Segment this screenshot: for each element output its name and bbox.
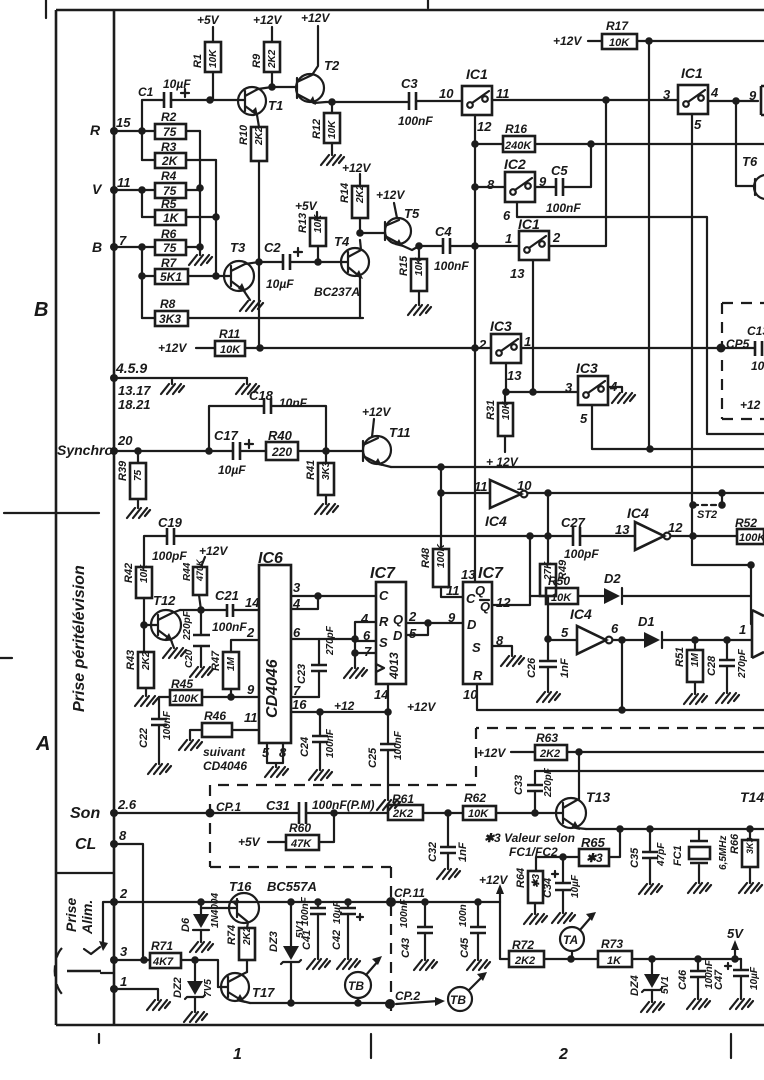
svg-text:13: 13 <box>461 567 476 582</box>
analog switch IC3 b <box>578 376 608 405</box>
resistor R45 100K <box>170 690 202 705</box>
left margin dash <box>0 657 12 659</box>
resonator FC1 6,5MHz <box>698 829 700 883</box>
svg-text:100pF: 100pF <box>564 547 599 561</box>
svg-text:2.6: 2.6 <box>117 797 137 812</box>
wire IC4a output line <box>528 492 764 494</box>
zener DZ2 7V5 <box>194 960 196 1012</box>
svg-text:T4: T4 <box>334 234 350 249</box>
svg-text:2K2: 2K2 <box>514 955 535 967</box>
svg-text:V: V <box>92 181 103 197</box>
svg-text:220pF: 220pF <box>182 610 193 641</box>
capacitor C2 10uF <box>255 258 263 266</box>
svg-text:C34: C34 <box>542 878 554 898</box>
svg-text:2K2: 2K2 <box>141 651 152 671</box>
svg-text:10K: 10K <box>327 120 338 139</box>
svg-text:C26: C26 <box>526 657 538 678</box>
svg-text:R43: R43 <box>125 650 137 670</box>
capacitor C13 <box>755 341 762 356</box>
resistor R43 2K2 <box>138 652 154 688</box>
svg-text:C4: C4 <box>435 224 452 239</box>
svg-text:2K2: 2K2 <box>254 126 265 146</box>
pin 20 Synchro <box>110 447 118 455</box>
svg-text:11: 11 <box>474 479 488 494</box>
capacitor C42 10uF <box>348 902 363 959</box>
svg-text:240K: 240K <box>504 140 532 152</box>
resistor R7 5K1 <box>142 275 224 277</box>
svg-text:100nF: 100nF <box>546 201 581 215</box>
svg-text:100n: 100n <box>458 904 469 927</box>
svg-text:T13: T13 <box>586 789 610 805</box>
svg-text:R72: R72 <box>512 938 534 952</box>
svg-text:10K: 10K <box>220 344 241 356</box>
svg-text:1K: 1K <box>163 211 180 225</box>
svg-text:S: S <box>379 635 388 650</box>
IC IC6 CD4046 <box>259 565 291 743</box>
resistor R64 *3 <box>528 871 543 903</box>
transistor T3 <box>224 261 254 291</box>
svg-text:9: 9 <box>448 610 456 625</box>
svg-text:C28: C28 <box>706 655 718 676</box>
capacitor C3 100nF <box>409 92 416 110</box>
node column R3/R5/R7 <box>215 160 217 276</box>
svg-text:75: 75 <box>163 184 177 198</box>
svg-text:+12V: +12V <box>199 544 228 558</box>
svg-text:Q: Q <box>480 599 490 614</box>
svg-text:3: 3 <box>293 580 301 595</box>
wire IC3b pin4 to ground <box>608 387 622 392</box>
svg-text:Q: Q <box>393 612 403 627</box>
inverter IC4 b <box>635 522 664 550</box>
svg-text:20: 20 <box>117 433 133 448</box>
svg-text:2: 2 <box>408 609 417 624</box>
svg-text:13: 13 <box>507 368 522 383</box>
svg-text:10K: 10K <box>414 257 425 276</box>
analog switch IC1 c <box>519 231 549 260</box>
svg-text:3K3: 3K3 <box>745 837 755 854</box>
svg-text:R60: R60 <box>289 821 311 835</box>
svg-text:DZ4: DZ4 <box>629 975 641 996</box>
svg-text:R52: R52 <box>735 516 757 530</box>
resistor R3 2K <box>142 159 216 161</box>
svg-text:10K: 10K <box>551 592 572 604</box>
svg-text:IC7: IC7 <box>478 565 504 582</box>
capacitor C5 100nF <box>535 144 591 187</box>
dashed boundary TV side <box>210 728 764 1018</box>
capacitor C26 1nF <box>547 639 549 692</box>
svg-text:7V5: 7V5 <box>203 979 214 997</box>
svg-text:C41: C41 <box>301 930 313 950</box>
svg-text:2: 2 <box>552 230 561 245</box>
svg-text:1: 1 <box>739 622 746 637</box>
svg-text:C23: C23 <box>296 664 308 684</box>
transistor T13 <box>556 798 586 828</box>
svg-text:6: 6 <box>503 208 511 223</box>
svg-text:2: 2 <box>558 1046 568 1063</box>
svg-text:R6: R6 <box>161 227 177 241</box>
resistor R50 10K <box>530 595 604 597</box>
svg-text:2K2: 2K2 <box>392 808 413 820</box>
resistor R40 220 <box>266 442 298 460</box>
wire IC3a out to CP5 <box>521 347 755 349</box>
resistor R51 1M <box>694 640 696 694</box>
pin CL 8 <box>110 840 118 848</box>
transistor T17 <box>221 973 249 1001</box>
left margin divider <box>4 512 99 514</box>
svg-text:IC2: IC2 <box>504 156 526 172</box>
svg-text:C25: C25 <box>367 747 379 768</box>
svg-text:C2: C2 <box>264 240 281 255</box>
svg-text:R2: R2 <box>161 110 177 124</box>
svg-text:15: 15 <box>116 115 131 130</box>
svg-text:T11: T11 <box>389 425 410 440</box>
svg-text:13: 13 <box>615 522 630 537</box>
capacitor C18 10nF <box>209 406 326 451</box>
resistor R6 75 <box>142 246 200 248</box>
IC7b pin10 net <box>477 684 764 710</box>
wire IC1a out down to IC1c <box>549 100 606 246</box>
wire C2 node down to R11 <box>258 262 260 348</box>
svg-text:+12V: +12V <box>479 873 508 887</box>
svg-text:C43: C43 <box>400 938 412 958</box>
svg-text:C47: C47 <box>713 969 725 990</box>
resistor R47 1M <box>223 652 239 689</box>
svg-text:270pF: 270pF <box>737 648 748 679</box>
svg-text:3: 3 <box>565 380 573 395</box>
svg-text:R7: R7 <box>161 256 178 270</box>
svg-text:CP5: CP5 <box>726 337 750 351</box>
svg-text:1: 1 <box>524 334 531 349</box>
svg-text:11: 11 <box>446 583 460 598</box>
svg-text:10µF: 10µF <box>163 77 191 91</box>
svg-text:R8: R8 <box>160 297 176 311</box>
svg-text:10µF: 10µF <box>218 463 246 477</box>
capacitor C33 220pF <box>535 771 764 813</box>
svg-text:B: B <box>92 239 102 255</box>
svg-text:C46: C46 <box>677 969 689 990</box>
svg-text:+12: +12 <box>740 398 761 412</box>
svg-text:3K3: 3K3 <box>159 312 181 326</box>
svg-text:TB: TB <box>348 979 364 993</box>
top tick <box>427 0 429 8</box>
node CP.11 <box>386 897 396 907</box>
wire IC4c out to IC7b pin10 <box>621 640 623 710</box>
svg-text:T2: T2 <box>324 58 340 73</box>
resistor R4 75 <box>142 189 200 191</box>
svg-text:10µF: 10µF <box>749 966 760 990</box>
analog switch IC1 b <box>678 85 708 114</box>
wire T2 emitter node / output <box>326 101 409 103</box>
resistor R16 240K <box>475 143 764 145</box>
transistor T16 BC557A <box>229 893 259 923</box>
capacitor C43 100nF <box>424 902 426 960</box>
svg-text:R39: R39 <box>117 460 129 481</box>
svg-text:5V: 5V <box>727 926 744 941</box>
analog switch IC3 a <box>491 334 521 363</box>
svg-text:C45: C45 <box>459 937 471 958</box>
svg-text:IC6: IC6 <box>258 550 283 567</box>
svg-text:+12V: +12V <box>553 34 582 48</box>
node CP.2 <box>385 999 395 1009</box>
svg-text:Son: Son <box>70 805 100 822</box>
svg-text:IC1: IC1 <box>466 66 488 82</box>
svg-text:R51: R51 <box>674 647 686 667</box>
svg-text:5: 5 <box>561 625 569 640</box>
svg-text:CD4046: CD4046 <box>264 659 281 718</box>
wire IC2 pin6 net <box>517 202 764 434</box>
svg-text:R42: R42 <box>123 563 135 583</box>
svg-text:11: 11 <box>244 710 258 725</box>
wire +12V node down to R72 <box>500 902 509 959</box>
svg-text:D1: D1 <box>638 614 655 629</box>
svg-text:C27: C27 <box>561 515 586 530</box>
capacitor C31 100nF <box>299 802 306 824</box>
svg-text:100nF: 100nF <box>212 620 247 634</box>
svg-text:T3: T3 <box>230 240 246 255</box>
svg-text:R48: R48 <box>420 547 432 568</box>
svg-text:R17: R17 <box>606 19 629 33</box>
svg-text:C1: C1 <box>138 85 154 99</box>
svg-text:D: D <box>467 617 477 632</box>
wire IC7b pin12 net <box>492 536 530 605</box>
svg-text:R4: R4 <box>161 169 177 183</box>
pin R 15 <box>110 127 118 135</box>
resistor R42 10K <box>136 567 152 598</box>
inverter IC4 c <box>548 639 577 641</box>
svg-text:2K2: 2K2 <box>355 184 366 204</box>
svg-text:B: B <box>34 299 48 321</box>
svg-text:C: C <box>379 588 389 603</box>
svg-text:5: 5 <box>580 411 588 426</box>
wire node 12 vertical <box>474 115 476 582</box>
svg-text:BC557A: BC557A <box>267 879 317 894</box>
resistor R73 1K <box>598 951 632 967</box>
svg-text:18.21: 18.21 <box>118 397 151 412</box>
svg-text:10K: 10K <box>501 401 512 420</box>
svg-text:CP.1: CP.1 <box>216 800 241 814</box>
+12V arrow <box>499 890 501 902</box>
svg-text:R5: R5 <box>161 197 177 211</box>
transistor T1 <box>238 87 266 115</box>
svg-text:IC7: IC7 <box>370 565 396 582</box>
svg-text:T5: T5 <box>404 206 420 221</box>
svg-text:1: 1 <box>120 974 127 989</box>
wire IC3a pin13 <box>506 363 578 392</box>
svg-text:R: R <box>90 122 101 138</box>
svg-text:C20: C20 <box>184 649 195 668</box>
svg-text:+12V: +12V <box>362 405 391 419</box>
bottom tick 1 <box>370 1034 372 1058</box>
node CP.1 <box>206 809 215 818</box>
svg-text:R3: R3 <box>161 140 177 154</box>
svg-text:10K: 10K <box>609 37 630 49</box>
svg-text:10: 10 <box>439 86 454 101</box>
svg-text:C24: C24 <box>299 737 311 757</box>
node column R2/R4/R6 to ground <box>199 131 201 255</box>
svg-text:C33: C33 <box>513 775 525 795</box>
svg-text:R14: R14 <box>339 183 351 203</box>
svg-text:6: 6 <box>611 621 619 636</box>
svg-text:+12V: +12V <box>376 188 405 202</box>
capacitor C22 100nF <box>158 697 160 764</box>
resistor R2 75 <box>142 130 200 132</box>
svg-text:BC237A: BC237A <box>314 285 360 299</box>
svg-text:R9: R9 <box>251 53 263 68</box>
svg-text:R41: R41 <box>305 460 317 480</box>
svg-text:+12: +12 <box>334 699 355 713</box>
svg-text:Synchro: Synchro <box>57 442 113 458</box>
svg-text:5: 5 <box>409 626 417 641</box>
svg-text:2K: 2K <box>161 154 179 168</box>
wire IC3b pin5 <box>592 405 764 449</box>
svg-text:1nF: 1nF <box>457 842 469 862</box>
capacitor C35 47pF <box>649 829 651 884</box>
capacitor C46 100nF <box>697 959 699 999</box>
svg-text:5K1: 5K1 <box>160 270 182 284</box>
capacitor C4 100nF <box>419 245 475 247</box>
zener DZ4 5V1 <box>651 959 653 1002</box>
svg-text:47pF: 47pF <box>656 842 667 867</box>
analog switch IC1 a <box>462 86 492 115</box>
svg-text:C: C <box>466 591 476 606</box>
svg-text:270pF: 270pF <box>325 625 336 656</box>
svg-text:1nF: 1nF <box>559 658 571 678</box>
svg-text:R71: R71 <box>151 939 173 953</box>
svg-text:T16: T16 <box>229 879 252 894</box>
next stage box edge <box>761 86 764 115</box>
svg-text:ST2: ST2 <box>697 509 717 521</box>
svg-text:10µF: 10µF <box>570 874 581 898</box>
svg-text:FC1: FC1 <box>672 845 684 866</box>
svg-text:+12V: +12V <box>301 11 330 25</box>
capacitor C21 100nF <box>227 604 233 617</box>
svg-text:1M: 1M <box>226 656 237 671</box>
IC IC7 a 4013 <box>376 582 406 684</box>
svg-text:C42: C42 <box>331 930 343 950</box>
svg-text:470K: 470K <box>195 558 205 582</box>
svg-text:C3: C3 <box>401 76 418 91</box>
capacitor C24 100nF <box>319 712 321 770</box>
wire T13 emitter line <box>586 828 764 830</box>
IC7a pins R S 7 to ground <box>355 622 376 668</box>
svg-text:7: 7 <box>364 644 372 659</box>
svg-text:R49: R49 <box>557 559 569 580</box>
svg-text:✱3: ✱3 <box>586 851 603 865</box>
resistor R5 1K <box>142 216 216 218</box>
svg-text:2: 2 <box>119 886 128 901</box>
svg-text:2K2: 2K2 <box>242 926 253 946</box>
svg-text:IC3: IC3 <box>576 360 598 376</box>
svg-text:1: 1 <box>233 1046 242 1063</box>
svg-text:T14: T14 <box>740 789 764 805</box>
svg-text:75: 75 <box>163 241 177 255</box>
svg-text:Alim.: Alim. <box>79 900 95 935</box>
node T12 collector <box>180 609 227 611</box>
svg-text:R63: R63 <box>536 731 558 745</box>
svg-text:R11: R11 <box>219 327 240 341</box>
resistor R74 2K2 <box>239 928 255 960</box>
svg-text:13.17: 13.17 <box>118 383 151 398</box>
svg-text:IC4: IC4 <box>627 505 649 521</box>
svg-text:+12V: +12V <box>407 700 436 714</box>
transistor T12 <box>144 624 158 626</box>
svg-text:1K: 1K <box>607 955 622 967</box>
capacitor C34 10uF <box>552 857 563 913</box>
resistor R49 27K <box>547 536 549 639</box>
svg-text:R13: R13 <box>297 213 309 233</box>
svg-text:suivant: suivant <box>203 745 246 759</box>
frame top border <box>56 9 764 12</box>
svg-text:R1: R1 <box>192 54 204 68</box>
test point TB 2 <box>448 987 472 1011</box>
svg-text:A: A <box>35 733 50 755</box>
divider Prise Alim <box>57 872 114 874</box>
strap ST2 <box>721 493 723 505</box>
svg-text:100nF: 100nF <box>398 114 433 128</box>
svg-text:TA: TA <box>563 933 578 947</box>
svg-text:9: 9 <box>749 88 757 103</box>
svg-text:100nF: 100nF <box>393 730 404 760</box>
svg-text:DZ2: DZ2 <box>172 977 184 998</box>
svg-text:Prise: Prise <box>63 898 79 932</box>
svg-text:10nF: 10nF <box>279 396 308 410</box>
svg-text:100K: 100K <box>739 532 764 544</box>
svg-text:CP.2: CP.2 <box>395 989 420 1003</box>
IC IC7 b 4013 <box>463 582 492 684</box>
svg-text:11: 11 <box>496 86 510 101</box>
resistor R72 2K2 <box>509 951 544 967</box>
wire to T6 <box>736 101 755 186</box>
svg-text:C18: C18 <box>249 388 274 403</box>
svg-text:9: 9 <box>247 682 255 697</box>
svg-text:47K: 47K <box>290 838 312 850</box>
svg-text:+12V: +12V <box>158 341 187 355</box>
svg-text:5: 5 <box>694 117 702 132</box>
svg-text:C22: C22 <box>138 728 150 748</box>
resistor R61 2K2 <box>388 805 423 820</box>
svg-text:4.5.9: 4.5.9 <box>115 360 147 376</box>
svg-text:R: R <box>379 614 389 629</box>
svg-text:+12V: +12V <box>253 13 282 27</box>
svg-text:R47: R47 <box>210 650 222 671</box>
svg-text:+5V: +5V <box>238 835 261 849</box>
transistor T4 <box>341 248 369 276</box>
svg-text:R64: R64 <box>515 868 527 888</box>
pin 3 and R71 4K7 <box>110 956 118 964</box>
svg-text:R62: R62 <box>464 791 486 805</box>
wire IC1b out to pin 9 <box>708 100 758 102</box>
svg-text:IC3: IC3 <box>490 318 512 334</box>
svg-text:DZ3: DZ3 <box>268 931 280 952</box>
svg-text:C5: C5 <box>551 163 568 178</box>
svg-text:27K: 27K <box>543 561 554 581</box>
svg-text:6,5MHz: 6,5MHz <box>718 836 729 870</box>
svg-text:4K7: 4K7 <box>152 956 174 968</box>
svg-text:T17: T17 <box>252 985 275 1000</box>
svg-text:+12V: +12V <box>477 746 506 760</box>
zener DZ3 5V1 <box>290 902 292 1003</box>
wire IC1a out <box>492 99 678 101</box>
capacitor C1 10uF <box>142 100 245 131</box>
svg-text:2: 2 <box>246 625 255 640</box>
bottom tick 2 <box>730 1034 732 1058</box>
svg-text:4: 4 <box>360 611 369 626</box>
svg-text:12: 12 <box>477 119 492 134</box>
svg-text:CL: CL <box>75 836 96 853</box>
svg-text:10: 10 <box>751 359 764 373</box>
svg-text:R66: R66 <box>729 833 741 854</box>
svg-text:3: 3 <box>120 944 128 959</box>
